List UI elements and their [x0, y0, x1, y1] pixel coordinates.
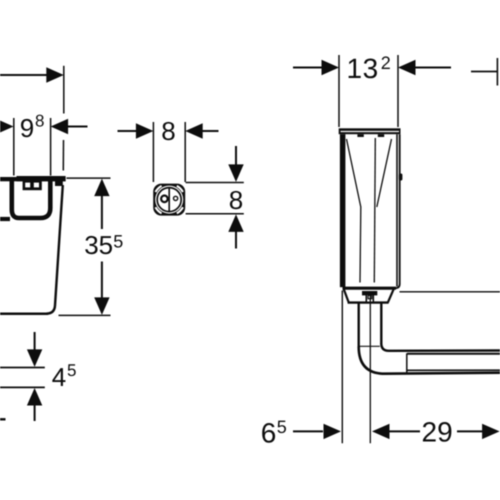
svg-text:8: 8 [229, 185, 243, 215]
lid clips (comb with two holes) [23, 181, 42, 190]
inner tank trough (U shape) [12, 181, 51, 218]
left edge tick [0, 418, 6, 420]
tank moulding left diagonal [347, 139, 361, 283]
tank moulding right diagonal [377, 139, 392, 207]
svg-text:13: 13 [347, 53, 379, 84]
lid right end tab [55, 181, 63, 186]
spigot bore hole [155, 186, 183, 214]
dimension 8 (width) left arrow [118, 130, 138, 132]
dimension 13_2 left arrow [293, 67, 323, 69]
spigot body (rounded square) [153, 184, 185, 216]
extension line left (x=339) [338, 55, 340, 127]
svg-text:5: 5 [113, 232, 123, 252]
extension line right (x=398) [397, 55, 399, 127]
tank bottom [0, 312, 48, 315]
dimension 4_5 down arrow [34, 332, 36, 351]
trough bottom continuation to left edge [0, 217, 10, 221]
extension line right (x=50.6) [50, 118, 52, 176]
dimension 29 left arrow [372, 424, 390, 439]
outlet clip inner square [368, 295, 372, 298]
pipe sleeve bottom line [407, 369, 500, 371]
tank top lip [339, 128, 401, 134]
extension line left (x=153.4) [152, 122, 154, 182]
svg-text:2: 2 [381, 53, 391, 73]
pipe sleeve joint [406, 353, 408, 373]
tank bottom extension line to right [400, 291, 500, 293]
pipe joint line [359, 345, 380, 347]
spigot bore ring [157, 188, 181, 212]
spigot divider line [168, 188, 170, 212]
svg-text:9: 9 [20, 113, 34, 143]
pipe centre line x=370.3 [369, 296, 371, 443]
tank left wall [340, 134, 346, 287]
pipe sleeve top line [407, 353, 500, 355]
svg-text:5: 5 [277, 417, 287, 437]
svg-text:35: 35 [84, 230, 113, 260]
top dimension arrow (cut off at left edge) [0, 74, 48, 76]
spigot corner notches [155, 186, 161, 192]
dimension 4_5 up arrow [27, 388, 42, 406]
dimension 35_5 top extension line [67, 177, 111, 179]
under-lip tab left [357, 134, 363, 137]
flush pipe right wall [380, 303, 382, 345]
svg-text:8: 8 [35, 112, 44, 131]
outlet flange right side [388, 289, 394, 303]
dimension 9_8 right arrow [51, 119, 69, 134]
far right dimension remnant [471, 71, 497, 73]
svg-text:6: 6 [261, 417, 277, 448]
dimension 9_8 left arrow [0, 119, 14, 134]
elbow outer curve + pipe bottom [359, 347, 500, 374]
extension line x=342.3 [341, 291, 343, 444]
dimension 8 (width) right arrow [185, 123, 203, 138]
right wall small tab [399, 174, 403, 181]
spigot left port [161, 196, 168, 203]
tank right wall outer line [395, 134, 400, 288]
dimension 8 (height) bottom extension line [186, 213, 244, 215]
flush pipe left wall [358, 303, 360, 348]
vertical witness line x=64 (upper segment) [63, 66, 65, 114]
svg-text:8: 8 [161, 116, 175, 146]
extension line right (x=185.2) [184, 122, 186, 182]
dimension 8 (height) top extension line [186, 182, 244, 184]
svg-text:4: 4 [52, 362, 66, 392]
under-lip tab right [378, 134, 384, 137]
dimension 6_5 arrow [293, 430, 323, 432]
dimension 8 (height) up arrow [228, 214, 243, 232]
outlet dark bar [362, 291, 377, 295]
outlet flange bottom [348, 301, 389, 303]
cistern lid [0, 177, 66, 181]
extension line left (x=13.8) [13, 118, 15, 176]
dimension 35_5 up arrow [94, 179, 109, 197]
dimension 13_2 right arrow [398, 60, 416, 75]
dimension 35_5 bottom extension line [59, 314, 111, 316]
dimension 35_5 down arrow [101, 262, 103, 299]
tank outer right wall (sloped) [47, 185, 63, 314]
tank moulding centre vertical [374, 138, 375, 283]
dimension 4_5 upper reference line [0, 367, 45, 369]
elbow inner curve + pipe top [381, 344, 500, 351]
outlet clip [366, 294, 373, 302]
dimension 4_5 lower reference line [0, 386, 45, 388]
tank bottom [343, 287, 397, 290]
spigot right port [174, 196, 178, 200]
outlet flange left side [344, 289, 349, 303]
svg-text:29: 29 [422, 417, 453, 448]
dimension 8 (height) down arrow [235, 146, 237, 166]
tank right wall inner line [396, 134, 398, 286]
vertical witness line x=64 (lower segment) [62, 140, 64, 171]
dimension 29 right arrow [457, 430, 483, 432]
svg-text:5: 5 [67, 361, 76, 380]
